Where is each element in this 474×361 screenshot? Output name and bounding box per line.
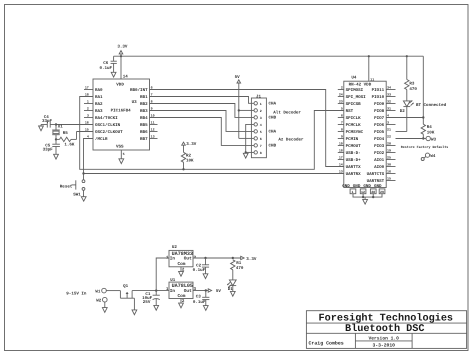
svg-text:Reset: Reset	[60, 184, 73, 189]
svg-text:11: 11	[151, 121, 155, 125]
wire RB4 to J1 pin7	[150, 118, 254, 146]
svg-text:RA3: RA3	[95, 109, 103, 114]
node W3 junction	[422, 137, 424, 139]
svg-text:22: 22	[387, 135, 391, 139]
node 5V J1 supply	[235, 75, 241, 138]
svg-text:8: 8	[151, 100, 153, 104]
svg-text:10K: 10K	[427, 130, 435, 135]
pad W1	[95, 288, 120, 294]
svg-text:AIO0: AIO0	[374, 165, 385, 170]
svg-text:6: 6	[260, 137, 262, 141]
svg-text:9: 9	[151, 107, 153, 111]
wire /MCLR to reset and UARTRX (long)	[84, 139, 344, 174]
svg-text:5: 5	[260, 130, 262, 134]
wire 3.3V rail top	[114, 55, 424, 57]
svg-text:U2: U2	[172, 245, 178, 250]
svg-text:PIO9: PIO9	[374, 102, 385, 107]
wire RB7 stub	[150, 138, 158, 140]
ground below W2	[102, 308, 107, 313]
svg-text:12: 12	[361, 190, 365, 194]
svg-text:OSC1/CLKIN: OSC1/CLKIN	[95, 122, 121, 128]
svg-text:34: 34	[387, 86, 391, 90]
svg-text:C3: C3	[196, 294, 202, 299]
node R1 junction	[232, 257, 234, 259]
svg-text:9-15V In: 9-15V In	[66, 292, 87, 297]
svg-text:R5: R5	[63, 131, 69, 136]
svg-text:PIO5: PIO5	[374, 130, 385, 135]
svg-text:13: 13	[339, 170, 343, 174]
svg-text:20: 20	[387, 142, 391, 146]
svg-text:470: 470	[409, 87, 417, 92]
LED D1 power	[227, 280, 236, 292]
node R2 to wire junction	[182, 168, 184, 170]
svg-text:11: 11	[370, 77, 374, 81]
svg-text:12: 12	[151, 128, 155, 132]
ground below J1	[243, 153, 248, 158]
svg-text:Version 1.0: Version 1.0	[369, 336, 400, 342]
svg-text:13: 13	[151, 135, 155, 139]
svg-text:Restore Factory Defaults: Restore Factory Defaults	[401, 145, 449, 149]
svg-text:3-3-2010: 3-3-2010	[372, 342, 395, 348]
node C2 junction	[204, 257, 206, 259]
transistor Q1	[120, 284, 134, 310]
svg-text:J1: J1	[256, 94, 262, 99]
capacitor C5	[43, 139, 60, 154]
svg-text:2: 2	[260, 109, 262, 113]
svg-text:PIO11: PIO11	[372, 88, 385, 93]
svg-text:PIO10: PIO10	[372, 95, 385, 100]
svg-text:GND: GND	[374, 184, 382, 189]
svg-text:PCMOUT: PCMOUT	[346, 144, 362, 149]
wire 5V to J1 pin2	[239, 109, 254, 111]
module U4 RN-42 box	[344, 76, 386, 188]
svg-text:RA2: RA2	[95, 102, 103, 107]
svg-text:PIO2: PIO2	[374, 151, 385, 156]
svg-text:Com: Com	[178, 262, 186, 267]
svg-text:33pF: 33pF	[42, 119, 53, 124]
capacitor C1 10uF 25V	[142, 291, 160, 306]
svg-text:21: 21	[387, 128, 391, 132]
svg-text:19: 19	[387, 149, 391, 153]
svg-text:UA78L05: UA78L05	[172, 283, 193, 289]
svg-text:X1: X1	[58, 125, 64, 130]
svg-text:RA4/T0CKI: RA4/T0CKI	[95, 115, 118, 121]
svg-text:32: 32	[387, 100, 391, 104]
svg-text:15: 15	[387, 177, 391, 181]
svg-text:17: 17	[339, 156, 343, 160]
resistor R5 1.6K	[56, 131, 93, 147]
svg-text:CHA: CHA	[269, 102, 277, 107]
svg-text:0.1uF: 0.1uF	[193, 268, 206, 273]
svg-text:PIC16F84: PIC16F84	[111, 109, 132, 114]
U4 GND pins strip	[342, 184, 385, 199]
svg-text:U4: U4	[351, 76, 357, 81]
svg-text:10: 10	[151, 114, 155, 118]
ground left of C4	[39, 126, 44, 131]
svg-text:Q1: Q1	[123, 284, 129, 289]
svg-text:CHB: CHB	[269, 116, 277, 121]
U4 right stubs	[386, 90, 423, 181]
svg-text:2: 2	[341, 86, 343, 90]
regulator U1 UA78L05	[166, 278, 197, 304]
ground below U2 Com	[179, 271, 184, 276]
ground below C6	[111, 72, 116, 77]
svg-text:31: 31	[387, 107, 391, 111]
wire RA1 to RN-42 RST (long)	[80, 97, 344, 170]
svg-text:33: 33	[387, 93, 391, 97]
svg-text:8: 8	[341, 128, 343, 132]
svg-text:W3: W3	[431, 137, 437, 142]
svg-text:RA1: RA1	[95, 95, 103, 100]
svg-text:6: 6	[341, 114, 343, 118]
svg-text:5V: 5V	[235, 75, 241, 80]
svg-text:1: 1	[260, 102, 262, 106]
svg-text:U3: U3	[132, 100, 138, 105]
connector J1 pins	[254, 102, 262, 155]
svg-text:PCMCLK: PCMCLK	[346, 123, 362, 128]
U3 right pin names	[130, 87, 148, 142]
title block	[306, 311, 466, 349]
wire RA3 stub	[84, 110, 93, 112]
svg-text:6: 6	[151, 86, 153, 90]
svg-text:10: 10	[339, 142, 343, 146]
svg-text:Out: Out	[184, 257, 192, 262]
svg-text:1: 1	[166, 287, 169, 292]
wire C1 junction up to U2 In	[156, 258, 169, 291]
ground below U4	[363, 199, 368, 204]
svg-text:PIO6: PIO6	[374, 123, 385, 128]
svg-text:D2: D2	[400, 109, 406, 114]
svg-text:4: 4	[87, 135, 89, 139]
svg-text:16: 16	[85, 121, 89, 125]
svg-text:R2: R2	[186, 153, 192, 158]
svg-text:PCMSYNC: PCMSYNC	[346, 130, 364, 135]
node C1 junction	[155, 289, 157, 291]
svg-text:5: 5	[341, 107, 343, 111]
wire U1 Out to 5V	[193, 290, 208, 292]
svg-text:Craig Combes: Craig Combes	[309, 341, 344, 347]
svg-text:3.3V: 3.3V	[186, 142, 197, 147]
svg-text:PIO4: PIO4	[374, 137, 385, 142]
wire J1 pin4 to ground	[246, 124, 254, 152]
U3 left pin numbers	[85, 86, 89, 139]
svg-text:W1: W1	[95, 289, 101, 294]
svg-text:W2: W2	[96, 298, 102, 303]
svg-text:9: 9	[341, 135, 343, 139]
svg-text:C2: C2	[196, 263, 202, 268]
pad W4 jumper	[421, 153, 436, 160]
svg-text:7: 7	[151, 93, 153, 97]
svg-text:3: 3	[387, 121, 389, 125]
svg-text:AIO1: AIO1	[374, 158, 385, 163]
svg-text:0.1uF: 0.1uF	[193, 300, 206, 305]
U4 VDD pin 11	[369, 56, 374, 81]
svg-text:25: 25	[387, 156, 391, 160]
svg-text:3.3V: 3.3V	[246, 257, 257, 262]
node U4 VDD rail junction	[368, 55, 370, 57]
pad W2	[96, 297, 107, 307]
svg-text:Com: Com	[178, 294, 186, 299]
svg-text:5V: 5V	[216, 289, 222, 294]
node 5V output arrow	[208, 289, 221, 294]
regulator U2 UA78M33	[166, 245, 197, 272]
svg-text:7: 7	[341, 121, 343, 125]
U3 VSS pin 5	[121, 150, 124, 159]
svg-text:5: 5	[123, 152, 125, 156]
svg-text:PIO3: PIO3	[374, 144, 385, 149]
svg-text:3: 3	[260, 116, 262, 120]
pad W3	[423, 136, 436, 142]
svg-text:Bluetooth DSC: Bluetooth DSC	[345, 323, 424, 335]
svg-text:4: 4	[260, 123, 262, 127]
ground below C2	[203, 274, 208, 279]
svg-text:R4: R4	[427, 125, 433, 130]
svg-text:GND: GND	[363, 184, 371, 189]
svg-text:18: 18	[85, 93, 89, 97]
node J1 pin2 junction	[238, 109, 240, 111]
wire RB1 to J1 pin1	[150, 97, 254, 104]
capacitor C2	[193, 258, 210, 274]
LED D2 BT Connected	[396, 100, 447, 131]
wire 3.3V vertical to U3 VDD	[120, 54, 122, 79]
capacitor C6	[100, 56, 117, 72]
svg-text:BT Connected: BT Connected	[416, 102, 447, 108]
svg-text:17: 17	[85, 86, 89, 90]
svg-text:RA0: RA0	[95, 88, 103, 93]
svg-text:UARTTX: UARTTX	[346, 165, 362, 170]
capacitor C4	[41, 115, 56, 127]
svg-text:VSS: VSS	[116, 144, 124, 149]
svg-text:Alt Decoder: Alt Decoder	[273, 110, 301, 116]
svg-text:14: 14	[339, 163, 343, 167]
svg-text:470: 470	[236, 266, 244, 271]
svg-text:RST: RST	[346, 109, 354, 114]
wire 5V to J1 pin6	[239, 137, 254, 139]
resistor R2 10K pullup	[181, 142, 196, 169]
node rail junction	[120, 55, 122, 57]
svg-text:UARTRST: UARTRST	[367, 179, 385, 184]
svg-text:PIO8: PIO8	[374, 109, 385, 114]
svg-text:RB7: RB7	[140, 137, 148, 142]
svg-text:SPICSB: SPICSB	[346, 102, 362, 107]
svg-text:UARTCTS: UARTCTS	[367, 172, 385, 177]
resistor R4 10K	[421, 56, 435, 138]
svg-text:PCMIN: PCMIN	[346, 137, 359, 142]
ground below Q1 gate	[132, 310, 137, 315]
svg-text:GND: GND	[342, 184, 350, 189]
crystal X1	[52, 125, 63, 140]
svg-text:W4: W4	[430, 154, 436, 159]
wire RA0 stub	[84, 89, 93, 91]
node crystal bottom junction	[55, 138, 57, 140]
node R3 rail junction	[406, 55, 408, 57]
wire RA2 stub	[84, 103, 93, 105]
svg-text:3: 3	[194, 287, 197, 292]
svg-text:PIO7: PIO7	[374, 116, 385, 121]
wire U2 Out to 3.3V	[193, 257, 241, 259]
U4 left pin names	[346, 88, 367, 177]
svg-text:USB-D-: USB-D-	[346, 151, 361, 156]
svg-text:8: 8	[260, 151, 262, 155]
wire RB0 to U4 UARTTX	[150, 90, 344, 167]
svg-text:0.1uF: 0.1uF	[100, 66, 113, 71]
svg-text:RB2: RB2	[140, 102, 148, 107]
svg-text:CHA: CHA	[269, 130, 277, 135]
op-amp U3 PIC16F84 box	[93, 74, 150, 150]
svg-text:VDD: VDD	[116, 82, 124, 87]
node C3 junction	[205, 289, 207, 291]
svg-text:OSC2/CLKOUT: OSC2/CLKOUT	[95, 129, 123, 135]
svg-text:RN-42 VDD: RN-42 VDD	[349, 83, 372, 88]
J1 channel labels	[269, 102, 305, 149]
wire RB2 to J1 pin3	[150, 104, 254, 118]
svg-text:SPICLK: SPICLK	[346, 116, 362, 121]
svg-text:R1: R1	[236, 261, 242, 266]
ground below D1	[230, 291, 235, 296]
svg-text:RB3: RB3	[140, 109, 148, 114]
svg-text:USB-D+: USB-D+	[346, 158, 362, 163]
ground below C5	[54, 154, 59, 159]
svg-text:Foresight Technologies: Foresight Technologies	[319, 312, 454, 324]
node 3.3V top	[117, 44, 128, 54]
wire RB6 stub	[150, 131, 158, 133]
wire RA4 stub	[84, 117, 93, 119]
U4 right pin names	[367, 88, 385, 184]
svg-text:R3: R3	[409, 82, 415, 87]
node 3.3V output arrow	[241, 256, 257, 262]
svg-text:UARTRX: UARTRX	[346, 172, 362, 177]
svg-text:29: 29	[380, 190, 384, 194]
ground below U1 Com	[179, 303, 184, 308]
svg-text:1.6K: 1.6K	[64, 143, 75, 148]
wire RB3 to J1 pin5	[150, 111, 254, 132]
svg-text:In: In	[170, 289, 176, 294]
svg-text:Az Decoder: Az Decoder	[278, 137, 304, 143]
wire OSC1 to crystal	[56, 124, 93, 126]
svg-text:24: 24	[339, 93, 343, 97]
resistor R3 470	[405, 56, 418, 101]
svg-text:In: In	[170, 257, 176, 262]
svg-text:CHB: CHB	[269, 144, 277, 149]
capacitor C3	[193, 291, 210, 306]
svg-text:18: 18	[339, 149, 343, 153]
svg-text:SPI_MOSI: SPI_MOSI	[346, 95, 367, 100]
wire J1 pin8 to ground	[246, 151, 254, 153]
svg-text:1: 1	[87, 100, 89, 104]
svg-text:RB1: RB1	[140, 95, 148, 100]
svg-text:23: 23	[339, 100, 343, 104]
wire RB5 stub	[150, 124, 158, 126]
node J1 ground junction	[245, 151, 247, 153]
wire PIO4 to W3	[396, 138, 424, 140]
ground below U3 VSS	[119, 159, 124, 164]
svg-text:16: 16	[387, 170, 391, 174]
svg-text:3.3V: 3.3V	[117, 44, 128, 49]
ground below SW1	[81, 197, 86, 202]
node crystal top junction	[55, 123, 57, 125]
svg-text:10K: 10K	[186, 159, 194, 164]
svg-text:25V: 25V	[143, 300, 151, 305]
svg-text:RB4: RB4	[140, 116, 148, 121]
ground below C3	[203, 306, 208, 311]
resistor R1 470	[231, 260, 244, 280]
svg-text:/MCLR: /MCLR	[95, 136, 108, 142]
ground below C1	[154, 305, 159, 310]
node reset junction	[82, 172, 84, 174]
U3 left pin names	[95, 88, 123, 142]
svg-text:2: 2	[87, 107, 89, 111]
svg-text:3: 3	[87, 114, 89, 118]
svg-text:RB0/INT: RB0/INT	[130, 87, 148, 93]
svg-text:GND: GND	[353, 184, 361, 189]
svg-text:33pF: 33pF	[43, 147, 54, 152]
svg-text:30: 30	[387, 163, 391, 167]
U4 right pin numbers	[387, 86, 391, 181]
U3 right pin numbers	[151, 86, 155, 139]
svg-text:1: 1	[352, 190, 354, 194]
connector J1 box	[251, 94, 266, 157]
svg-text:7: 7	[260, 144, 262, 148]
svg-text:SPIMOSI: SPIMOSI	[346, 88, 364, 93]
svg-text:4: 4	[387, 114, 389, 118]
switch SW1 reset	[60, 174, 85, 198]
svg-text:RB6: RB6	[140, 130, 148, 135]
svg-text:14: 14	[123, 74, 129, 79]
svg-text:28: 28	[371, 190, 375, 194]
svg-text:SW1: SW1	[73, 192, 81, 197]
svg-text:15: 15	[85, 128, 89, 132]
U4 left stubs	[338, 90, 344, 160]
wire input rail	[132, 290, 169, 292]
svg-text:RB5: RB5	[140, 123, 148, 128]
svg-text:C6: C6	[103, 61, 109, 66]
U4 left pin numbers	[339, 86, 343, 174]
